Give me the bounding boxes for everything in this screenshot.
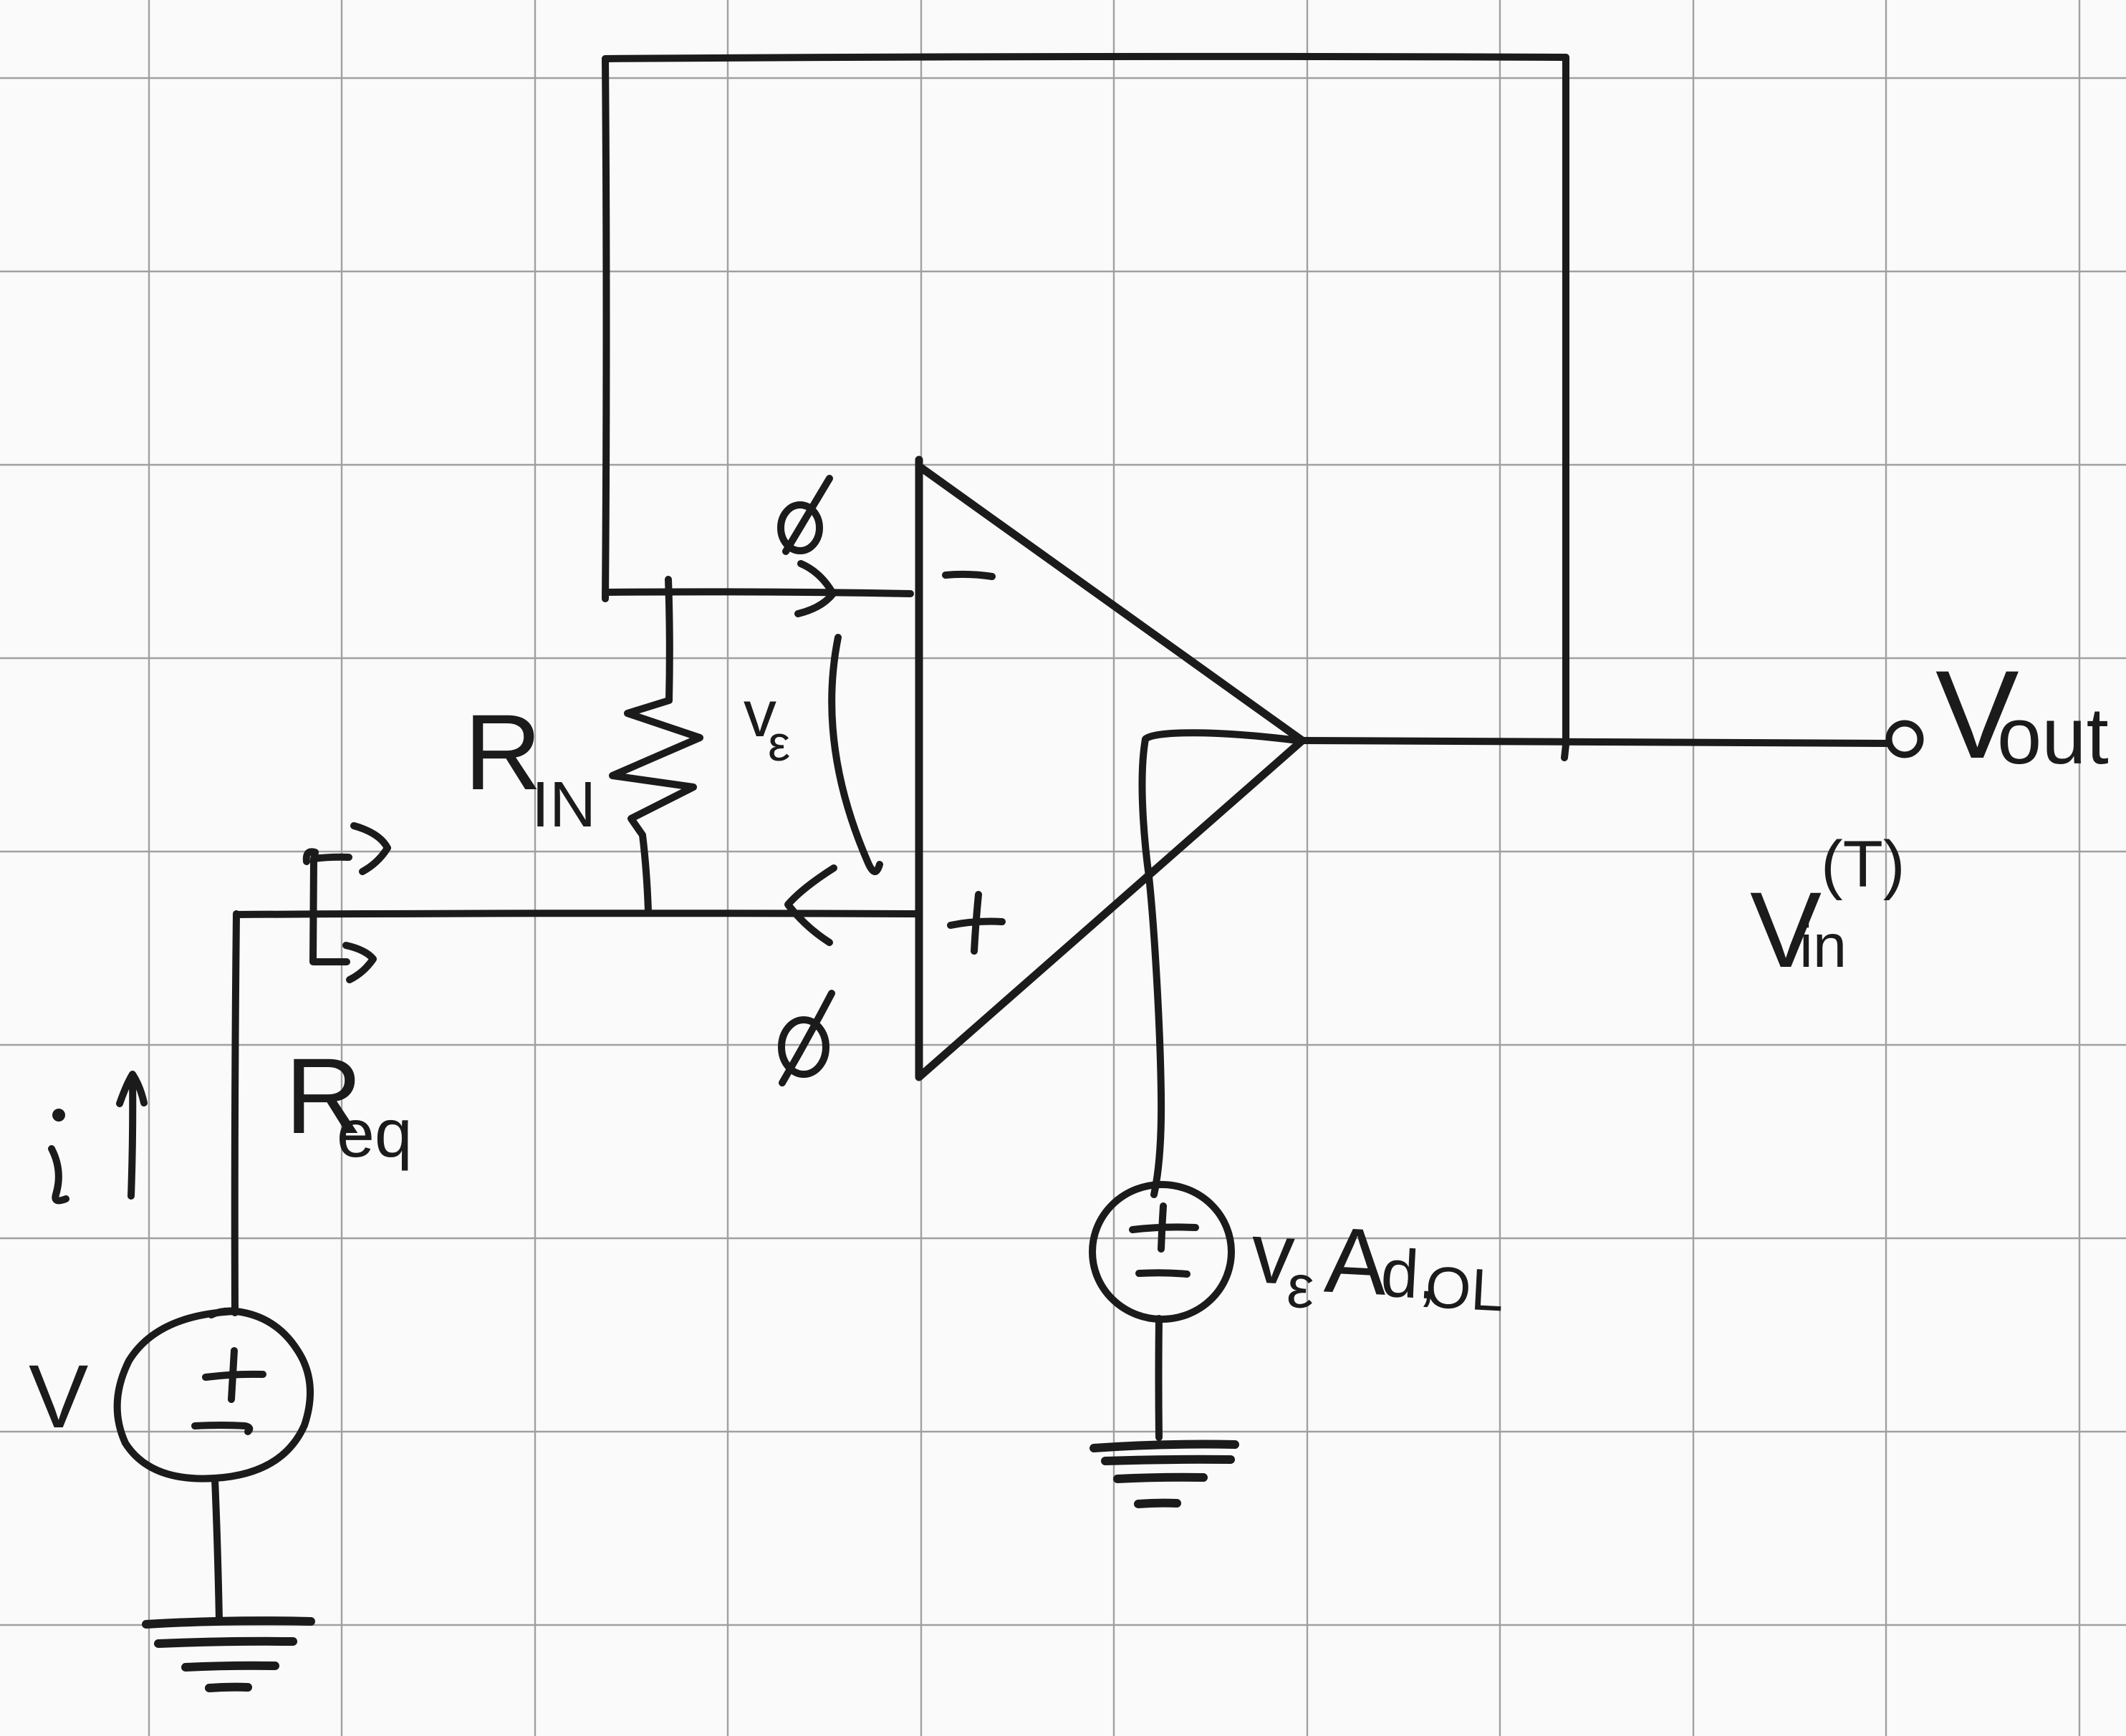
wire feedback left [605,59,607,599]
node Vout terminal [1889,723,1920,755]
svg-text:OL: OL [1424,1255,1506,1324]
svg-text:out: out [1997,691,2109,781]
label v_epsilon [744,677,790,771]
svg-text:R: R [464,692,542,812]
op-amp U1 [919,460,1302,1077]
wire to dependent source [1143,733,1298,1195]
svg-text:IN: IN [531,769,596,841]
wire source to ground [215,1479,219,1620]
svg-text:ε: ε [768,715,790,771]
label v_eps Ad,OL [1248,1203,1507,1331]
resistor R_IN [612,579,700,911]
label Vin(T) [1750,828,1905,990]
svg-text:eq: eq [337,1096,413,1172]
wire dependent source to ground [1155,1318,1163,1437]
ground right [1094,1445,1235,1504]
wire feedback right [1564,57,1567,758]
label Req [285,1036,413,1172]
op-amp plus pin label [951,894,1002,951]
label i [52,1109,66,1200]
v_epsilon arrowhead [788,868,834,942]
voltage source V [117,1311,310,1479]
wire inverting input [605,592,910,594]
node phi at inverting input [781,478,829,551]
v_epsilon measurement arc [832,637,880,872]
arrow inverting input [798,564,833,614]
svg-text:in: in [1799,912,1847,980]
label Vout [1935,645,2109,785]
node phi at noninverting input [781,993,832,1083]
current arrow i [120,1074,144,1196]
wire feedback top [605,57,1566,59]
svg-text:(T): (T) [1821,828,1905,901]
wire output [1302,741,1887,743]
wire noninverting input [236,913,918,915]
dependent source [1092,1185,1231,1319]
op-amp minus pin label [946,574,992,577]
svg-text:ε: ε [1285,1253,1316,1322]
svg-text:V: V [29,1347,88,1447]
Req looking-in bracket [307,826,388,980]
wire source top [235,914,236,1313]
label R_IN [464,692,596,841]
ground left [146,1621,311,1688]
